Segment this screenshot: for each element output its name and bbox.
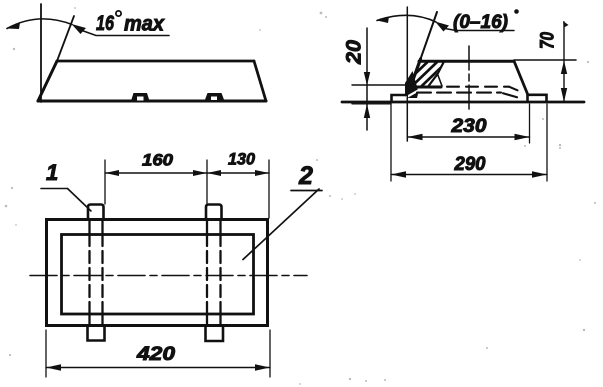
svg-text:290: 290 <box>454 154 486 175</box>
svg-text:420: 420 <box>136 344 176 365</box>
svg-text:1: 1 <box>46 160 58 185</box>
svg-text:70: 70 <box>538 32 559 49</box>
svg-text:160: 160 <box>142 151 174 170</box>
svg-text:230: 230 <box>450 116 487 137</box>
svg-text:max: max <box>124 13 165 36</box>
svg-text:(0–16): (0–16) <box>453 12 508 33</box>
svg-text:2: 2 <box>298 162 313 190</box>
svg-text:20: 20 <box>343 40 366 65</box>
svg-text:16: 16 <box>96 12 114 35</box>
svg-text:130: 130 <box>228 150 256 169</box>
